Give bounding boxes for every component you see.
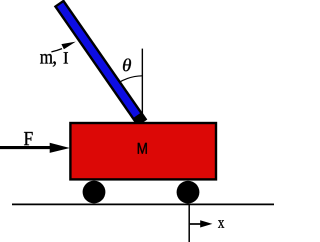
label F: [24, 132, 33, 145]
x axis arrowhead: [200, 220, 212, 227]
label M: [138, 143, 147, 154]
label m: [40, 54, 53, 64]
x origin tick line: [188, 204, 190, 242]
ground line: [12, 203, 274, 205]
force arrowhead: [50, 143, 70, 153]
cart body: [70, 123, 216, 179]
angle arc: [118, 76, 143, 84]
label x: [218, 220, 224, 227]
annotation arrowhead: [61, 42, 75, 50]
x axis arrow shaft: [190, 223, 201, 225]
force arrow F shaft: [0, 146, 51, 149]
pendulum rod blue body m,I: [60, 5, 137, 116]
annotation arrow to rod: [51, 49, 62, 52]
vertical reference line: [141, 49, 143, 123]
left wheel: [83, 181, 106, 204]
label theta: [123, 58, 131, 71]
label I: [64, 52, 68, 63]
pendulum rod outline: [59, 3, 143, 123]
right wheel: [177, 181, 200, 204]
label comma: [53, 61, 56, 66]
